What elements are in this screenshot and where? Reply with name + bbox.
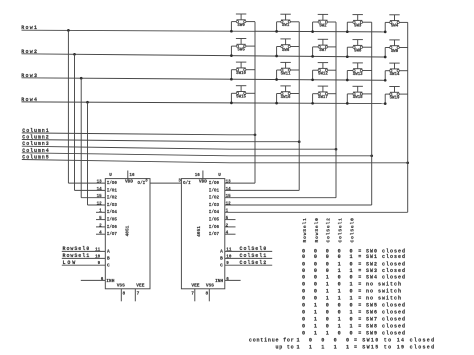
svg-text:U: U (218, 173, 221, 178)
junction SW7/Row2 (311, 55, 314, 58)
svg-text:2: 2 (99, 223, 102, 228)
svg-text:1: 1 (350, 310, 353, 316)
junction Column3/vertical (335, 148, 338, 151)
svg-text:0: 0 (314, 261, 317, 267)
svg-text:up to: up to (275, 344, 294, 350)
svg-text:=: = (358, 288, 361, 294)
svg-text:O/I: O/I (183, 181, 191, 186)
switch SW2 pushbutton (318, 14, 328, 28)
svg-text:7: 7 (137, 291, 140, 297)
svg-text:ColSel2: ColSel2 (326, 217, 332, 242)
svg-text:1: 1 (338, 295, 341, 301)
wire Row2 horizontal (22, 54, 386, 57)
svg-text:0: 0 (350, 317, 353, 323)
svg-text:3: 3 (178, 178, 181, 183)
wire ColSel1 from U2 (225, 257, 272, 259)
wire SW14 to Column5 (399, 70, 408, 72)
svg-text:0: 0 (326, 261, 329, 267)
switch SW18 pushbutton (353, 86, 364, 100)
table row 3: 00010 = SW2 closed (302, 261, 406, 267)
junction SW1/Row1 (275, 30, 278, 33)
svg-text:B: B (107, 256, 110, 262)
wire SW2 to Column3 (328, 21, 336, 23)
svg-text:SW4: SW4 (391, 25, 399, 29)
svg-text:0: 0 (302, 281, 305, 287)
svg-text:I/O6: I/O6 (107, 225, 118, 230)
wire Row4 feed to U1 pin (87, 102, 89, 205)
svg-text:0: 0 (334, 338, 337, 344)
svg-text:I/O2: I/O2 (209, 196, 220, 201)
svg-text:0: 0 (302, 324, 305, 330)
switch SW1 pushbutton (280, 14, 290, 28)
switch SW4 pushbutton (389, 15, 399, 29)
wire Column3 vertical bus (335, 22, 337, 198)
wire SW8 to Row2 (347, 46, 353, 48)
svg-text:0: 0 (338, 303, 341, 309)
switch SW19 pushbutton (389, 87, 400, 101)
svg-text:SW5: SW5 (237, 48, 245, 52)
svg-text:1: 1 (326, 281, 329, 287)
svg-text:0: 0 (321, 338, 324, 344)
svg-text:SW14: SW14 (390, 73, 400, 77)
wire ColSel0 from U2 (225, 250, 272, 252)
svg-text:0: 0 (314, 295, 317, 301)
wire SW10 to Column1 (246, 69, 255, 71)
wire SW9 to Row2 (385, 47, 390, 49)
junction SW9/Row2 (384, 56, 387, 59)
junction Column2/vertical (298, 140, 301, 143)
svg-text:4051: 4051 (196, 226, 202, 237)
svg-text:SW18: SW18 (353, 96, 363, 100)
svg-text:1: 1 (334, 344, 337, 350)
svg-text:SW2: SW2 (319, 24, 327, 28)
svg-text:0: 0 (314, 254, 317, 260)
svg-text:0: 0 (314, 275, 317, 281)
svg-text:=: = (358, 275, 361, 281)
svg-text:0: 0 (326, 254, 329, 260)
wire Column1 vertical bus (254, 22, 256, 183)
U1 pin 1 I/O4 (96, 211, 105, 213)
wire Row3 horizontal (22, 78, 386, 81)
wire Row1 feed to U1 pin (67, 30, 69, 183)
wire SW0 to Row1 (231, 21, 236, 23)
wire ColSel2 from U2 (225, 264, 272, 266)
svg-text:15: 15 (226, 194, 232, 199)
svg-text:=: = (358, 324, 361, 330)
wire SW7 to Row2 (313, 46, 319, 48)
svg-text:SW3: SW3 (354, 25, 362, 29)
junction SW10/Row3 (230, 78, 233, 81)
svg-text:I/O3: I/O3 (107, 203, 118, 208)
op-amp U1 4051 analog multiplexer body (105, 179, 150, 289)
svg-text:1: 1 (338, 324, 341, 330)
table row 13: 01100 = SW9 closed (302, 331, 406, 337)
wire U2 pin to Column2 vertical (225, 189, 299, 191)
svg-text:0: 0 (302, 254, 305, 260)
svg-text:I/O4: I/O4 (107, 210, 118, 215)
wire Column4 vertical bus (371, 22, 373, 205)
svg-text:=: = (354, 344, 357, 350)
svg-text:SW1: SW1 (282, 24, 290, 28)
svg-text:=: = (358, 310, 361, 316)
svg-text:=: = (358, 295, 361, 301)
wire SW15 to Row4 (231, 92, 236, 94)
wire Column2 vertical bus (298, 22, 300, 191)
U1 pin 6 INH (81, 279, 106, 281)
wire U2 pin to Column5 vertical (225, 211, 408, 213)
svg-text:VSS: VSS (206, 282, 214, 288)
wire SW13 to Column4 (362, 70, 371, 72)
wire SW18 to Row4 (347, 93, 353, 95)
svg-text:1: 1 (338, 288, 341, 294)
junction SW16/Row4 (275, 102, 278, 105)
switch SW0 pushbutton (236, 14, 246, 28)
svg-text:SW9: SW9 (391, 50, 399, 54)
svg-text:0: 0 (302, 310, 305, 316)
svg-text:1: 1 (350, 324, 353, 330)
svg-text:I/O1: I/O1 (107, 188, 118, 193)
switch SW6 pushbutton (280, 39, 290, 53)
wire SW17 to Row4 (313, 93, 319, 95)
wire Row2 feed to U1 pin (74, 54, 76, 190)
svg-text:VSS: VSS (117, 282, 125, 288)
table row 9: 01000 = SW5 closed (302, 303, 406, 309)
svg-text:no switch: no switch (366, 281, 402, 287)
svg-text:0: 0 (338, 254, 341, 260)
svg-text:continue for: continue for (249, 338, 295, 344)
svg-text:1: 1 (350, 295, 353, 301)
svg-text:7: 7 (191, 291, 194, 297)
svg-text:SW9 closed: SW9 closed (366, 331, 406, 337)
svg-text:0: 0 (302, 288, 305, 294)
svg-text:VEE: VEE (136, 282, 144, 288)
svg-text:13: 13 (226, 180, 232, 185)
svg-text:SW15 to 19 closed: SW15 to 19 closed (362, 344, 435, 350)
svg-text:ColSel1: ColSel1 (338, 217, 344, 242)
wire SW19 to Row4 (385, 93, 390, 95)
svg-text:1: 1 (338, 268, 341, 274)
junction SW0/Row1 (230, 30, 233, 33)
svg-text:1: 1 (326, 288, 329, 294)
wire SW6 to Column2 (290, 46, 299, 48)
svg-text:VDD: VDD (199, 179, 207, 185)
junction SW18/Row4 (346, 102, 349, 105)
U2 pin 16 VDD stub (202, 171, 204, 179)
svg-text:=: = (358, 303, 361, 309)
junction Row1/feed (67, 29, 70, 32)
svg-text:C: C (107, 262, 110, 268)
switch SW17 pushbutton (318, 86, 329, 100)
svg-text:0: 0 (302, 331, 305, 337)
svg-text:I/O0: I/O0 (107, 181, 118, 186)
svg-text:SW11: SW11 (281, 72, 291, 76)
svg-text:SW16: SW16 (281, 96, 291, 100)
wire RowSel1 to U1 (62, 257, 106, 259)
wire SW9 to Column5 (399, 47, 408, 49)
svg-text:1: 1 (314, 317, 317, 323)
wire SW18 to Column4 (362, 93, 371, 95)
table row 1: 00000 = SW0 closed (302, 249, 406, 255)
wire SW13 to Row3 (347, 70, 353, 72)
svg-text:0: 0 (326, 303, 329, 309)
wire SW1 to Row1 (277, 21, 281, 23)
wire Row4 horizontal (22, 102, 386, 104)
svg-text:A: A (107, 249, 110, 255)
svg-text:0: 0 (326, 317, 329, 323)
svg-text:1: 1 (99, 209, 102, 214)
switch SW14 pushbutton (389, 63, 400, 77)
switch SW9 pushbutton (389, 40, 399, 54)
svg-text:1: 1 (314, 331, 317, 337)
svg-text:0: 0 (338, 281, 341, 287)
svg-text:1: 1 (346, 344, 349, 350)
svg-text:SW5 closed: SW5 closed (366, 303, 406, 309)
svg-text:SW6 closed: SW6 closed (366, 310, 406, 316)
wire SW4 to Row1 (385, 21, 390, 23)
svg-text:1: 1 (296, 338, 299, 344)
U1 pin 4 I/O7 (96, 233, 105, 235)
switch SW3 pushbutton (353, 15, 363, 29)
op-amp U2 4051 analog multiplexer body (181, 179, 224, 289)
junction SW14/Row3 (384, 79, 387, 82)
wire Row3 feed to U1 pin (80, 78, 82, 198)
table row 15: 11111 = SW15 to 19 closed (275, 344, 435, 350)
svg-text:I/O7: I/O7 (209, 232, 220, 237)
svg-text:0: 0 (326, 310, 329, 316)
wire SW0 to Column1 (246, 21, 255, 23)
wire SW16 to Column2 (290, 93, 299, 95)
junction Row2/feed (73, 53, 76, 56)
svg-text:0: 0 (326, 324, 329, 330)
svg-text:12: 12 (226, 201, 232, 206)
svg-text:SW2 closed: SW2 closed (366, 261, 406, 267)
svg-text:16: 16 (195, 173, 201, 178)
svg-text:1: 1 (338, 261, 341, 267)
table row 7: 00110 = no switch (302, 288, 402, 294)
svg-text:SW6: SW6 (282, 49, 290, 53)
table row 12: 01011 = SW8 closed (302, 324, 406, 330)
wire Column3 horizontal (22, 146, 230, 149)
svg-text:0: 0 (309, 338, 312, 344)
svg-text:0: 0 (302, 275, 305, 281)
wire SW3 to Column4 (362, 21, 371, 23)
svg-text:0: 0 (314, 268, 317, 274)
svg-text:1: 1 (314, 324, 317, 330)
table row 14: 10000 = SW10 to 14 closed (249, 338, 436, 344)
svg-text:SW0: SW0 (237, 24, 245, 28)
svg-text:1: 1 (314, 310, 317, 316)
table row 10: 01001 = SW6 closed (302, 310, 406, 316)
junction SW6/Row2 (275, 55, 278, 58)
wire LOW to U1 (62, 264, 106, 266)
U2 pin 4 I/O7 (225, 233, 236, 235)
svg-text:SW19: SW19 (390, 96, 400, 100)
wire SW10 to Row3 (231, 69, 236, 71)
svg-text:INH: INH (106, 278, 114, 284)
wire Column1 horizontal (22, 133, 230, 135)
svg-text:ColSel0: ColSel0 (350, 217, 356, 242)
junction SW19/Row4 (384, 102, 387, 105)
svg-text:1: 1 (326, 275, 329, 281)
U1 pin 2 I/O6 (96, 226, 105, 228)
svg-text:INH: INH (215, 278, 223, 284)
svg-text:0: 0 (350, 288, 353, 294)
switch SW5 pushbutton (236, 39, 246, 53)
svg-text:0: 0 (326, 268, 329, 274)
wire SW2 to Row1 (313, 21, 319, 23)
junction Column5/vertical (406, 161, 409, 164)
svg-text:6: 6 (101, 277, 104, 282)
junction SW13/Row3 (346, 79, 349, 82)
svg-text:0: 0 (350, 331, 353, 337)
switch SW13 pushbutton (353, 63, 364, 77)
svg-text:0: 0 (350, 275, 353, 281)
wire SW16 to Row4 (277, 93, 281, 95)
junction SW11/Row3 (275, 78, 278, 81)
U1 pin 5 I/O5 (96, 219, 105, 221)
svg-text:14: 14 (226, 187, 232, 192)
svg-text:SW12: SW12 (318, 73, 328, 77)
svg-text:I/O4: I/O4 (209, 210, 220, 215)
svg-text:1: 1 (326, 331, 329, 337)
svg-text:4051: 4051 (124, 225, 130, 236)
table row 11: 01010 = SW7 closed (302, 317, 406, 323)
svg-text:I/O5: I/O5 (107, 218, 118, 223)
svg-text:SW13: SW13 (353, 73, 363, 77)
junction SW8/Row2 (346, 55, 349, 58)
svg-text:5: 5 (226, 216, 229, 221)
wire Column5 horizontal (22, 160, 230, 163)
svg-text:SW10: SW10 (236, 72, 246, 76)
svg-text:RowSel1: RowSel1 (302, 217, 308, 242)
svg-text:0: 0 (302, 295, 305, 301)
wire SW19 to Column5 (399, 93, 408, 95)
svg-text:1: 1 (314, 303, 317, 309)
wire SW14 to Row3 (385, 70, 390, 72)
svg-text:I/O0: I/O0 (209, 181, 220, 186)
switch SW10 pushbutton (236, 62, 247, 76)
junction SW4/Row1 (384, 31, 387, 34)
svg-text:C: C (220, 262, 223, 268)
junction SW3/Row1 (346, 30, 349, 33)
svg-text:15: 15 (97, 194, 103, 199)
svg-text:0: 0 (314, 288, 317, 294)
wire RowSel0 to U1 (62, 250, 106, 252)
U2 pin 6 INH (225, 279, 241, 281)
svg-text:SW15: SW15 (236, 96, 246, 100)
wire SW5 to Row2 (231, 45, 236, 47)
svg-text:=: = (354, 338, 357, 344)
svg-text:13: 13 (97, 180, 103, 185)
svg-text:1: 1 (321, 344, 324, 350)
wire SW17 to Column3 (328, 93, 336, 95)
U2 pin 2 I/O6 (225, 226, 236, 228)
wire SW3 to Row1 (347, 21, 353, 23)
svg-text:A: A (220, 249, 223, 255)
wire Row1 horizontal (22, 30, 386, 32)
switch SW11 pushbutton (280, 62, 291, 76)
svg-text:SW10 to 14 closed: SW10 to 14 closed (362, 338, 435, 344)
svg-text:0: 0 (302, 303, 305, 309)
svg-text:1: 1 (350, 254, 353, 260)
svg-text:=: = (358, 331, 361, 337)
wire U2 pin to Column1 vertical (225, 182, 255, 184)
svg-text:0: 0 (350, 261, 353, 267)
svg-text:6: 6 (226, 277, 229, 282)
junction SW17/Row4 (311, 102, 314, 105)
svg-text:1: 1 (296, 344, 299, 350)
svg-text:0: 0 (338, 310, 341, 316)
table row 4: 00011 = SW3 closed (302, 268, 406, 274)
svg-text:SW7: SW7 (319, 49, 327, 53)
junction Column1/vertical (254, 133, 257, 136)
svg-text:2: 2 (226, 223, 229, 228)
svg-text:1: 1 (338, 317, 341, 323)
wire Column2 horizontal (22, 140, 230, 142)
svg-text:=: = (358, 281, 361, 287)
wire SW4 to Column5 (399, 21, 408, 23)
svg-text:0: 0 (314, 281, 317, 287)
switch SW8 pushbutton (353, 40, 363, 54)
svg-text:4: 4 (99, 231, 102, 236)
wire SW8 to Column4 (362, 46, 371, 48)
svg-text:I/O1: I/O1 (209, 188, 220, 193)
svg-text:14: 14 (97, 187, 103, 192)
svg-text:1: 1 (350, 281, 353, 287)
table row 8: 00111 = no switch (302, 295, 402, 301)
svg-text:I/O3: I/O3 (209, 203, 220, 208)
svg-text:0: 0 (346, 338, 349, 344)
svg-text:I/O7: I/O7 (107, 232, 118, 237)
wire SW12 to Row3 (313, 69, 319, 71)
svg-text:0: 0 (302, 261, 305, 267)
wire Column4 horizontal (22, 153, 230, 156)
table row 5: 00100 = SW4 closed (302, 275, 406, 281)
svg-text:SW1 closed: SW1 closed (366, 254, 406, 260)
svg-text:1: 1 (309, 344, 312, 350)
wire SW12 to Column3 (328, 69, 336, 71)
switch SW12 pushbutton (318, 63, 329, 77)
svg-text:no switch: no switch (366, 295, 402, 301)
svg-text:no switch: no switch (366, 288, 402, 294)
switch SW16 pushbutton (280, 86, 291, 100)
wire U2 pin to Column4 vertical (225, 204, 372, 206)
wire SW15 to Column1 (246, 92, 255, 94)
wire SW6 to Row2 (277, 46, 281, 48)
svg-text:RowSel0: RowSel0 (314, 217, 320, 242)
svg-text:0: 0 (350, 303, 353, 309)
svg-text:U: U (109, 173, 112, 178)
wire SW5 to Column1 (246, 45, 255, 47)
svg-text:SW4 closed: SW4 closed (366, 275, 406, 281)
svg-text:SW7 closed: SW7 closed (366, 317, 406, 323)
U1 pin 16 VDD stub (127, 171, 129, 179)
svg-text:0: 0 (302, 317, 305, 323)
wire U2 pin to Column3 vertical (225, 197, 336, 199)
svg-text:5: 5 (99, 216, 102, 221)
junction Row4/feed (86, 101, 89, 104)
junction SW15/Row4 (230, 102, 233, 105)
junction Row3/feed (80, 77, 83, 80)
svg-text:SW8: SW8 (354, 50, 362, 54)
svg-text:16: 16 (129, 173, 135, 178)
svg-text:0: 0 (338, 331, 341, 337)
svg-text:I/O2: I/O2 (107, 196, 118, 201)
svg-text:SW8 closed: SW8 closed (366, 324, 406, 330)
svg-text:1: 1 (226, 209, 229, 214)
wire SW11 to Column2 (290, 69, 299, 71)
svg-text:VDD: VDD (125, 179, 133, 185)
